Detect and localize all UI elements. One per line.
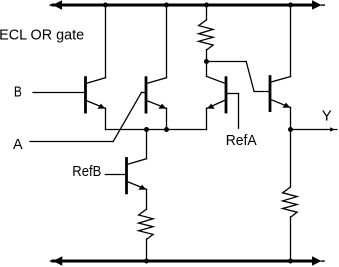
svg-text:Y: Y (322, 108, 332, 125)
svg-text:B: B (14, 84, 22, 101)
svg-text:RefB: RefB (72, 163, 101, 180)
svg-text:ECL OR gate: ECL OR gate (0, 27, 84, 44)
svg-text:RefA: RefA (226, 132, 257, 149)
svg-text:A: A (13, 136, 23, 153)
